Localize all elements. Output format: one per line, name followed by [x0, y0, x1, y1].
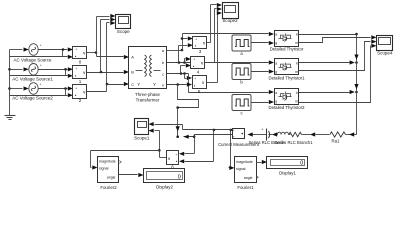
wire CM return to neutral node: [184, 135, 233, 139]
wire source V2 to VM1: [39, 67, 74, 71]
voltage measurement block 6 (flipped): [167, 151, 179, 165]
voltage measurement VM3: [193, 37, 207, 49]
wire RL to capacitor: [272, 132, 278, 136]
wire block6 out to Fourier2 and Scope1 in2: [91, 129, 167, 170]
wire to Fourier1 signal: [229, 130, 235, 171]
svg-text:0: 0: [178, 174, 181, 180]
voltage measurement VM1: [73, 66, 87, 79]
wire minus return row 3: [10, 87, 74, 97]
thyristor Detailed Thyristor: [275, 31, 299, 47]
svg-text:Current Measurement: Current Measurement: [218, 142, 260, 147]
wire Thy2 k to bus: [299, 60, 358, 64]
scope Scope: [116, 15, 131, 29]
svg-text:+: +: [40, 64, 42, 68]
svg-text:+: +: [195, 37, 197, 41]
wire VM0 out to Scope and transformer A: [87, 14, 130, 59]
display Display2: [144, 169, 185, 183]
svg-text:Fourier2: Fourier2: [100, 185, 117, 190]
svg-text:Display1: Display1: [279, 171, 296, 176]
svg-text:+: +: [75, 86, 77, 90]
wire Fourier2 angle to Display2: [119, 173, 144, 177]
svg-text:+: +: [193, 57, 195, 61]
wire capacitor to Current Measurement: [248, 132, 267, 136]
svg-text:+: +: [175, 153, 177, 157]
svg-text:+: +: [75, 47, 77, 51]
wire VM5 out to Scope2 in3: [207, 11, 223, 83]
svg-text:4: 4: [197, 70, 200, 75]
wire gate pulse b to thyristor: [251, 69, 275, 73]
svg-text:Detailed Thyristor1: Detailed Thyristor1: [269, 76, 306, 81]
resistor Ra1: [330, 132, 349, 137]
svg-text:m: m: [295, 100, 298, 104]
svg-text:signal: signal: [99, 167, 109, 171]
svg-text:c: c: [240, 110, 242, 115]
wire phase b: transformer b to Thyristor2 anode, VM3, VM4: [167, 43, 275, 65]
svg-text:0: 0: [300, 160, 303, 166]
capacitor Series RLC Branch: [261, 128, 272, 141]
wire gate pulse c to thyristor: [251, 100, 275, 104]
svg-text:g: g: [275, 70, 277, 74]
wire neutral n: transformer n to VM5 and down to load return: [167, 82, 193, 86]
label Three-phase Transformer: [135, 92, 160, 102]
svg-text:C: C: [131, 82, 134, 87]
svg-text:b: b: [162, 61, 164, 65]
svg-text:Detailed Thyristor: Detailed Thyristor: [270, 47, 304, 52]
transformer T1 (Three-phase Transformer): [129, 47, 167, 89]
wire Thy2 m to Scope4 in2: [299, 40, 377, 71]
wire return node to block6 in1: [179, 137, 195, 156]
pulse generator c: [232, 95, 251, 111]
svg-text:Scope1: Scope1: [134, 135, 150, 140]
svg-text:a: a: [275, 62, 277, 66]
AC source V1 (AC Voltage Source): [29, 44, 42, 56]
scope Scope1: [135, 119, 149, 135]
wire CM i-output to Scope1 in1, block6 in2, Fourier1: [149, 122, 233, 131]
wire VM2 out to Scope and transformer C: [87, 21, 130, 92]
pulse generator a: [232, 35, 251, 51]
wire source feed row 2: [10, 67, 29, 71]
svg-text:angle: angle: [244, 176, 253, 180]
svg-text:A: A: [131, 55, 134, 60]
AC source V2 (AC Voltage Source1): [29, 64, 42, 76]
svg-text:+: +: [40, 44, 42, 48]
scope Scope4: [377, 36, 393, 51]
scope Scope2: [223, 3, 239, 19]
svg-text:c: c: [162, 72, 164, 76]
fourier block Fourier2: [98, 157, 122, 183]
display Display1: [267, 157, 308, 169]
svg-text:n: n: [162, 83, 164, 87]
wire source feed row 3: [10, 86, 29, 90]
thyristor Detailed Thyristor2: [275, 89, 299, 105]
inductor+resistor Series RLC Branch1: [277, 132, 310, 137]
svg-text:magnitude: magnitude: [99, 160, 116, 164]
wire source feed row 1: [10, 47, 29, 51]
svg-text:magnitude: magnitude: [236, 160, 253, 164]
voltage measurement VM2: [73, 85, 87, 99]
svg-text:Transformer: Transformer: [136, 98, 160, 103]
svg-text:0: 0: [79, 59, 82, 64]
svg-text:angle: angle: [107, 175, 116, 179]
svg-text:Scope: Scope: [117, 29, 130, 34]
svg-text:Y: Y: [153, 82, 156, 87]
wire Ra1 to Series RLC Branch1: [310, 132, 330, 136]
svg-text:k: k: [296, 62, 298, 66]
svg-text:3: 3: [199, 49, 202, 54]
wire minus return row 1: [10, 48, 74, 59]
wire minus return row 2: [10, 68, 74, 78]
svg-text:k: k: [296, 33, 298, 37]
AC source V3 (AC Voltage Source2): [29, 83, 42, 95]
svg-text:k: k: [296, 91, 298, 95]
svg-text:2: 2: [79, 98, 82, 103]
wire cathode bus down to load: [354, 35, 358, 135]
voltage measurement VM5: [193, 76, 207, 89]
svg-text:Detailed Thyristor2: Detailed Thyristor2: [269, 105, 306, 110]
wire source V3 to VM2: [39, 86, 74, 90]
svg-text:B: B: [131, 70, 134, 75]
wire Thy3 m to Scope4 in3: [299, 44, 377, 103]
svg-text:+: +: [40, 83, 42, 87]
wire load line from bus: [349, 132, 357, 136]
voltage measurement VM0: [73, 47, 87, 59]
svg-text:a: a: [275, 91, 277, 95]
svg-text:AC Voltage Source: AC Voltage Source: [13, 58, 52, 63]
fourier block Fourier1: [235, 157, 259, 183]
wire Thy1 k to bus: [299, 33, 358, 36]
wire Thy1 m to Scope4 in1: [299, 35, 377, 42]
wire left vertical bus: [8, 50, 11, 116]
current measurement CM1: [233, 129, 245, 139]
wire gate pulse a to thyristor: [251, 41, 275, 45]
thyristor Detailed Thyristor1: [275, 59, 299, 75]
svg-text:signal: signal: [236, 167, 246, 171]
svg-text:+: +: [194, 77, 196, 81]
pulse generator b: [232, 64, 251, 80]
svg-text:1: 1: [79, 79, 82, 84]
svg-text:Y: Y: [137, 82, 140, 87]
svg-text:5: 5: [198, 89, 201, 94]
svg-text:Display2: Display2: [156, 184, 173, 189]
wire phase c: transformer c to Thyristor3 anode, VM4, VM5: [167, 63, 275, 94]
wire VM3 out to Scope2 in1: [207, 3, 223, 43]
wire Thy3 k to bus: [299, 90, 358, 94]
svg-text:+: +: [75, 67, 77, 71]
wire neutral bus down with detour: [176, 85, 199, 139]
wire VM1 out to Scope and transformer B: [87, 17, 130, 74]
svg-text:Three-phase: Three-phase: [135, 92, 160, 97]
svg-text:AC Voltage Source1: AC Voltage Source1: [12, 77, 53, 82]
svg-text:m: m: [295, 41, 298, 45]
wire to block6 in2: [179, 130, 214, 164]
voltage measurement VM4: [191, 57, 205, 69]
svg-text:Scope4: Scope4: [377, 50, 393, 55]
wire VM4 out to Scope2 in2: [205, 7, 223, 63]
svg-text:g: g: [275, 41, 277, 45]
svg-text:Ra1: Ra1: [332, 139, 340, 144]
svg-text:Fourier1: Fourier1: [237, 185, 254, 190]
svg-text:m: m: [295, 70, 298, 74]
wire phase a: transformer a to Thyristor1 anode and VM3: [167, 32, 275, 51]
wire Fourier1 magnitude to Display1: [257, 160, 268, 164]
svg-text:AC Voltage Source2: AC Voltage Source2: [12, 96, 53, 101]
ground: [5, 116, 16, 120]
svg-text:a: a: [275, 33, 277, 37]
svg-text:g: g: [275, 100, 277, 104]
svg-text:Scope2: Scope2: [222, 18, 238, 23]
wire source V1 to VM0: [39, 47, 74, 51]
